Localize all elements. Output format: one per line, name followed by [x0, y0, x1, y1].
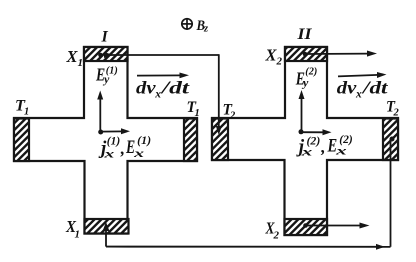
svg-text:2: 2: [393, 108, 400, 119]
contact T1 left (sample I): [14, 119, 29, 162]
svg-text:(2): (2): [307, 135, 321, 147]
svg-text:y: y: [301, 76, 309, 90]
contact X1 top (sample I): [84, 47, 128, 61]
node / arrows at center of sample I: [98, 130, 103, 135]
svg-text:(1): (1): [137, 135, 151, 147]
node / arrows at center of sample II: [299, 129, 304, 134]
svg-text:(1): (1): [107, 136, 121, 148]
svg-text:/dt: /dt: [360, 78, 389, 98]
svg-text:1: 1: [75, 229, 81, 241]
svg-text:1: 1: [78, 57, 84, 69]
svg-text:x: x: [355, 89, 362, 101]
svg-text:y: y: [102, 72, 110, 86]
svg-text:x: x: [154, 89, 161, 101]
svg-text:,: ,: [120, 139, 125, 158]
svg-text:dv: dv: [136, 78, 156, 98]
sample II cross outline: [212, 47, 398, 235]
dv/dt arrow (sample I): [137, 74, 181, 76]
svg-text:dv: dv: [337, 78, 357, 98]
wire arrow from X2 bottom: [303, 223, 308, 228]
svg-text:x: x: [103, 147, 114, 161]
contact X2 bottom (sample II): [285, 219, 328, 235]
svg-text:2: 2: [229, 111, 236, 122]
svg-text:I: I: [101, 29, 109, 46]
sample I cross outline: [14, 47, 197, 234]
svg-text:/dt: /dt: [159, 78, 191, 98]
B field symbol: [182, 19, 192, 29]
svg-text:x: x: [133, 146, 145, 160]
wire X1 bottom to T2 right: [103, 222, 110, 231]
svg-text:1: 1: [195, 108, 200, 119]
svg-text:2: 2: [276, 56, 283, 68]
contact X1 bottom (sample I): [85, 219, 129, 234]
svg-text:(2): (2): [339, 134, 353, 146]
svg-text:X: X: [265, 46, 278, 65]
contact T1 right (sample I): [184, 119, 197, 162]
contact T2 right (sample II): [383, 119, 398, 161]
contact T2 left (sample II): [212, 119, 228, 161]
svg-text:2: 2: [273, 230, 280, 242]
wire arrow from X2 top: [303, 52, 308, 57]
svg-text:X: X: [66, 47, 79, 66]
svg-text:1: 1: [24, 107, 29, 118]
contact X2 top (sample II): [285, 47, 327, 61]
dv/dt arrow (sample II): [338, 75, 379, 77]
wire X1top to T2left: [98, 53, 103, 58]
svg-text:II: II: [296, 26, 312, 43]
svg-text:,: ,: [320, 138, 325, 157]
